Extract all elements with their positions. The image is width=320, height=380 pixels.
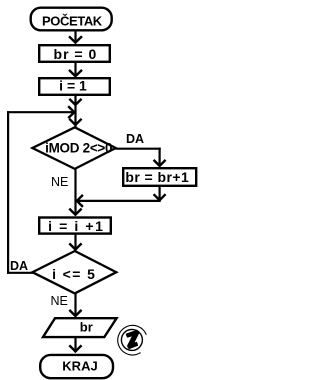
logo outer arc xyxy=(118,325,147,355)
svg-text:DA: DA xyxy=(126,132,144,146)
wire diamond 1 to i = i +1 xyxy=(69,168,81,216)
wire i=1 to diamond 1 with merge junction xyxy=(69,96,81,127)
logo glyph xyxy=(124,329,143,349)
logo inner circle xyxy=(121,329,142,350)
wire DA loop back left and up xyxy=(7,111,33,274)
decision i <= 5 xyxy=(32,251,116,293)
decision iMOD 2<>0 xyxy=(32,127,115,169)
svg-text:br: br xyxy=(80,320,93,335)
svg-text:DA: DA xyxy=(10,259,28,273)
svg-text:br = br+1: br = br+1 xyxy=(125,169,189,185)
process br = 0 xyxy=(39,45,110,62)
svg-text:NE: NE xyxy=(51,294,68,308)
svg-text:iMOD 2<>0: iMOD 2<>0 xyxy=(45,141,112,156)
wire stadium to br=0 xyxy=(69,31,82,44)
wire br to KRAJ xyxy=(69,338,81,352)
wire br=br+1 back to mainline xyxy=(76,186,166,207)
wire i=i+1 to diamond 2 xyxy=(69,233,81,251)
wire loop return horizontal into junction xyxy=(7,106,74,118)
svg-text:NE: NE xyxy=(51,175,68,189)
svg-text:POČETAK: POČETAK xyxy=(42,13,103,28)
process i = 1 xyxy=(39,78,110,95)
terminator POČETAK xyxy=(31,8,112,31)
wire DA branch to br=br+1 xyxy=(116,148,166,167)
terminator KRAJ xyxy=(40,355,113,378)
process i = i +1 xyxy=(39,218,111,234)
svg-text:br = 0: br = 0 xyxy=(54,46,98,62)
svg-text:i = 1: i = 1 xyxy=(59,78,87,94)
output parallelogram br xyxy=(43,318,117,337)
wire br=0 to i=1 xyxy=(69,63,82,77)
svg-text:i <= 5: i <= 5 xyxy=(52,266,96,282)
svg-text:KRAJ: KRAJ xyxy=(62,359,97,374)
svg-text:i = i +1: i = i +1 xyxy=(48,218,104,234)
wire diamond 2 to output br xyxy=(69,293,81,317)
process br = br+1 xyxy=(123,168,196,186)
